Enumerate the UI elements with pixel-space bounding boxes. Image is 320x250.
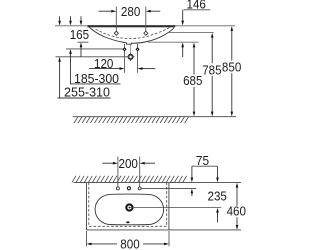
svg-text:460: 460 <box>227 204 246 219</box>
wire: mounting line C (785 level) <box>169 31 214 33</box>
dim 75 leader <box>192 165 218 167</box>
label 235 <box>207 188 229 203</box>
svg-text:235: 235 <box>208 188 227 203</box>
dim 75 upper arrow (down to wall) <box>191 166 193 178</box>
dim 165 bottom tick <box>78 41 89 43</box>
dim 460 <box>236 186 238 206</box>
svg-text:685: 685 <box>183 73 202 88</box>
dim 146 upper arrow (down) <box>182 10 184 22</box>
dim 280 line + arrows <box>99 10 161 12</box>
floor line <box>73 116 236 118</box>
bowl oval <box>95 194 164 225</box>
dim 280 extension left <box>115 7 117 32</box>
supply verticals <box>124 44 126 73</box>
wall hatching <box>72 176 187 183</box>
dim 280 extension right <box>145 7 147 32</box>
hidden dashed outline <box>89 183 167 227</box>
dim 685 <box>193 46 195 75</box>
tap hole middle <box>127 187 130 190</box>
wire: basin underside line D (685 level) <box>148 41 199 43</box>
dim 235 upper arrow (down to wall) <box>217 166 219 178</box>
floor hatching <box>74 117 189 123</box>
overflow slot <box>126 221 129 223</box>
label 165 <box>68 27 91 42</box>
tap hole left <box>116 187 119 190</box>
svg-text:75: 75 <box>196 153 209 168</box>
svg-text:850: 850 <box>222 60 241 75</box>
wall line <box>74 182 242 184</box>
supply diamond right <box>135 47 139 51</box>
wire: top surface line <box>55 25 235 27</box>
bowl outer solid curve <box>89 27 174 44</box>
dim 185-300 underline <box>70 83 121 85</box>
drain symbol (side view) <box>127 53 135 61</box>
label 280 <box>120 4 142 19</box>
dim 146 leader <box>184 9 211 11</box>
svg-text:120: 120 <box>94 56 113 71</box>
svg-text:255-310: 255-310 <box>64 85 110 100</box>
svg-text:146: 146 <box>187 0 206 12</box>
wire: notch to drain stub <box>130 44 132 53</box>
supply connection line <box>66 48 123 50</box>
svg-text:800: 800 <box>120 236 139 250</box>
dim 146 lower arrow (up) <box>182 46 184 58</box>
tap hole right <box>138 187 141 190</box>
anchor diamond right <box>144 31 148 35</box>
dim 165 lower arrow (up) <box>80 46 82 58</box>
dim 185-300 vertical + arrow (up) <box>70 52 72 84</box>
dim 785 <box>211 36 213 63</box>
dim 120 line + arrows <box>89 68 120 70</box>
supply diamond left <box>122 47 126 51</box>
dim 235 lower arrow (up to drain line) <box>217 211 219 223</box>
basin solid outline rect <box>87 183 169 230</box>
drain bold ring <box>126 204 132 210</box>
basin front edge line <box>87 229 242 231</box>
drain reference line to the right <box>129 207 221 209</box>
label 200 <box>119 156 138 171</box>
dim 800 extensions <box>86 231 88 246</box>
top outside arrows (down) for 255-310, 185-300, 165 <box>60 16 81 21</box>
basin rim thick bar <box>88 25 176 27</box>
dim 75 lower arrow (up to holes line) <box>191 192 193 197</box>
dim 800 line + arrows <box>92 243 118 245</box>
dim 200 line + arrows <box>102 162 113 164</box>
svg-text:280: 280 <box>121 4 140 19</box>
dim 255-310 underline <box>58 97 111 99</box>
svg-text:165: 165 <box>70 27 89 42</box>
anchor diamond left <box>114 31 118 35</box>
dim 850 <box>231 30 233 61</box>
svg-text:785: 785 <box>202 62 221 77</box>
dim 200 extensions down to holes <box>117 157 119 187</box>
svg-text:200: 200 <box>119 156 138 171</box>
bowl inner dashed curve <box>96 27 171 38</box>
label 800 <box>119 236 141 250</box>
drain connection line <box>56 56 128 58</box>
label 460 <box>226 204 248 219</box>
holes reference line to the right <box>141 187 196 189</box>
dim 255-310 vertical + arrow (up) <box>59 60 61 98</box>
